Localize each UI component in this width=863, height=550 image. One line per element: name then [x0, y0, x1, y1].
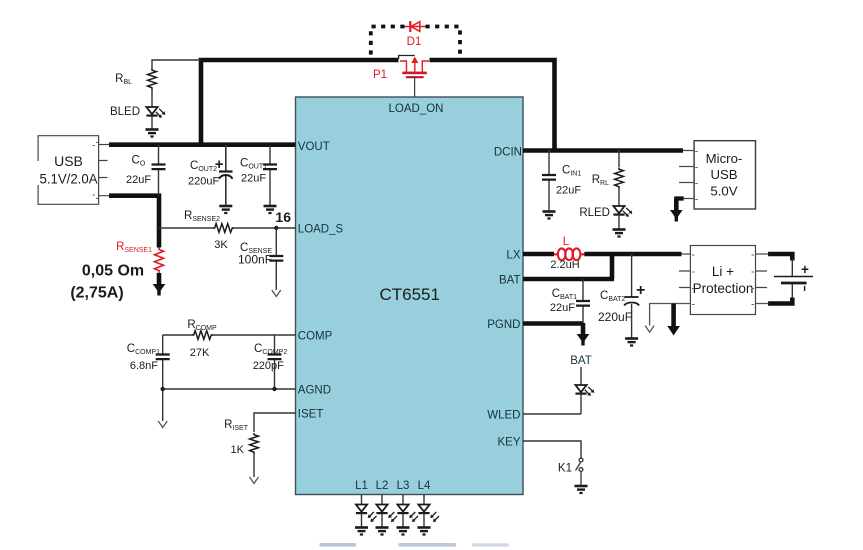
- wire thick BAT rail: [523, 277, 614, 282]
- svg-text:BAT: BAT: [570, 355, 592, 367]
- svg-text:LOAD_ON: LOAD_ON: [389, 103, 444, 115]
- svg-text:22uF: 22uF: [126, 174, 151, 186]
- resistor R_BL: [148, 60, 201, 107]
- svg-text:COMP: COMP: [298, 331, 333, 343]
- svg-text:220pF: 220pF: [253, 360, 284, 372]
- resistor RSENSE1 red: [155, 248, 164, 274]
- node junction DCIN / CIN1: [547, 148, 551, 152]
- svg-text:2.2uH: 2.2uH: [550, 259, 579, 271]
- wire thick PGND rail: [523, 321, 583, 326]
- LED RLED: [613, 206, 632, 229]
- battery BT1: [774, 259, 813, 298]
- Li+ right pin dashes: [756, 271, 768, 288]
- svg-text:27K: 27K: [190, 347, 210, 359]
- wire thick top rail left segment: [201, 60, 399, 145]
- svg-text:CT6551: CT6551: [379, 285, 439, 304]
- svg-text:P1: P1: [373, 69, 387, 81]
- ground bold arrow below RSENSE1: [153, 273, 166, 296]
- Micro-USB box: [694, 141, 755, 209]
- dashed box around D1 right part: [426, 27, 461, 59]
- svg-text:BLED: BLED: [110, 106, 140, 118]
- resistor RCOMP: [192, 331, 213, 340]
- ground below CBAT2: [625, 339, 638, 346]
- capacitor CSENSE: [269, 228, 283, 290]
- svg-text:Li +: Li +: [712, 264, 734, 279]
- switch K1: [576, 458, 584, 486]
- svg-text:Micro-: Micro-: [706, 151, 743, 166]
- ground below L4: [418, 528, 431, 535]
- capacitor Cout2 polarized: [219, 145, 233, 206]
- LED L2: [376, 495, 397, 528]
- wire ISET net: [254, 413, 296, 432]
- capacitor CCOMP1: [156, 335, 170, 389]
- svg-text:220uF: 220uF: [188, 176, 219, 188]
- wire thick LX lead left of coil: [523, 252, 554, 257]
- ground bold arrow below Li+ pin4: [667, 304, 680, 336]
- ground arrow below CSENSE: [272, 290, 281, 297]
- svg-text:(2,75A): (2,75A): [70, 285, 123, 302]
- svg-text:22uF: 22uF: [550, 302, 575, 314]
- ground below L1: [355, 528, 368, 535]
- svg-text:5.0V: 5.0V: [710, 184, 737, 199]
- ground below L2: [376, 528, 389, 535]
- svg-text:220uF: 220uF: [598, 310, 632, 324]
- svg-text:5.1V/2.0A: 5.1V/2.0A: [40, 172, 98, 187]
- battery minus mark: [804, 286, 806, 291]
- ground below L3: [397, 528, 410, 535]
- diode D1: [405, 21, 426, 32]
- watermark bar right: [472, 543, 509, 546]
- node junction AGND / CCOMP2: [272, 387, 276, 391]
- LED L1: [356, 495, 377, 528]
- wire Li+ pin4 to grounds: [650, 304, 691, 326]
- wire LOAD_S net: [159, 227, 296, 229]
- ground below CIN1: [543, 212, 556, 219]
- Micro-USB pin dashes: [679, 151, 694, 199]
- LED L3: [397, 495, 418, 528]
- svg-text:USB: USB: [710, 167, 737, 182]
- capacitor Co: [152, 145, 166, 196]
- wire thick DCIN rail: [523, 148, 683, 153]
- svg-text:ISET: ISET: [298, 409, 324, 421]
- svg-text:KEY: KEY: [497, 437, 520, 449]
- svg-text:0,05 Om: 0,05 Om: [82, 263, 144, 280]
- transistor P1 PMOS: [399, 56, 429, 79]
- svg-text:Protection: Protection: [693, 281, 754, 296]
- wire WLED net: [523, 413, 581, 415]
- capacitor CCOMP2: [268, 335, 282, 389]
- LED BLED: [146, 107, 165, 129]
- svg-text:LOAD_S: LOAD_S: [298, 224, 344, 236]
- wire P1 drain to LOAD_ON pin: [414, 78, 416, 97]
- svg-text:WLED: WLED: [487, 410, 520, 422]
- ground bold arrow below PGND rail: [577, 323, 590, 346]
- wire thick battery bottom loop: [768, 298, 792, 304]
- wire thin stub LX to Li+ pin1: [682, 253, 691, 255]
- ground arrow below CCOMP1: [158, 421, 167, 428]
- ground bold arrow at Micro-USB pin 4: [670, 199, 684, 222]
- wire thick USB lower lead to RSENSE1: [109, 196, 159, 248]
- svg-text:RLED: RLED: [579, 207, 610, 219]
- svg-text:L3: L3: [397, 480, 410, 492]
- ground below Cout2: [219, 206, 232, 213]
- node junction LX / CBAT2: [629, 252, 633, 256]
- svg-text:6.8nF: 6.8nF: [130, 360, 158, 372]
- svg-text:USB: USB: [54, 153, 83, 169]
- Li+ Protection box: [690, 246, 755, 315]
- resistor RISET: [250, 433, 259, 477]
- ground below K1: [575, 486, 588, 493]
- capacitor CBAT1: [576, 279, 590, 324]
- svg-text:DCIN: DCIN: [494, 147, 522, 159]
- svg-text:+: +: [801, 262, 809, 277]
- node junction LOAD_S / CSENSE: [274, 226, 278, 230]
- wire thick LX to BAT drop: [610, 252, 615, 279]
- wire AGND net: [163, 389, 296, 421]
- resistor RRL: [615, 151, 624, 207]
- ground below BLED: [146, 130, 159, 137]
- svg-text:1K: 1K: [231, 444, 245, 456]
- svg-text:K1: K1: [558, 463, 572, 475]
- inductor L: [554, 248, 585, 260]
- capacitor Cout1: [263, 145, 277, 206]
- LED L4: [418, 495, 439, 528]
- USB box pin marks: [93, 143, 99, 199]
- ground open arrow left of Li+: [645, 326, 654, 333]
- USB source box: [38, 136, 99, 205]
- wire COMP net: [163, 334, 296, 336]
- svg-text:L1: L1: [355, 480, 368, 492]
- svg-text:L: L: [563, 236, 570, 248]
- svg-text:+: +: [636, 282, 645, 299]
- svg-text:3K: 3K: [214, 239, 228, 251]
- svg-text:BAT: BAT: [499, 275, 521, 287]
- wire thick top rail right segment to DCIN drop: [430, 60, 555, 151]
- svg-text:22uF: 22uF: [241, 173, 266, 185]
- wire thick VOUT rail: [109, 142, 296, 147]
- resistor RSENSE2: [213, 224, 234, 233]
- svg-text:LX: LX: [506, 250, 520, 262]
- ground below Cout1: [264, 206, 277, 213]
- LED BAT (white LED): [575, 367, 594, 414]
- wire thick battery top loop: [768, 254, 792, 261]
- svg-text:16: 16: [275, 209, 291, 225]
- wire KEY net: [523, 441, 581, 458]
- capacitor CBAT2 polarized: [624, 254, 639, 338]
- svg-text:L4: L4: [418, 480, 431, 492]
- wire thick LX rail right of coil to Li+ box: [584, 252, 681, 257]
- svg-text:22uF: 22uF: [556, 185, 581, 197]
- svg-text:100nF: 100nF: [238, 253, 272, 267]
- USB box pin dashes: [99, 145, 110, 196]
- ground below RLED: [613, 230, 626, 237]
- svg-text:+: +: [215, 156, 224, 173]
- dashed box around D1 left part: [371, 27, 405, 59]
- svg-text:AGND: AGND: [298, 385, 331, 397]
- svg-text:PGND: PGND: [487, 319, 520, 331]
- Li+ left pin dashes: [679, 271, 690, 288]
- svg-text:L2: L2: [376, 480, 389, 492]
- svg-text:D1: D1: [407, 36, 422, 48]
- watermark bar left: [320, 543, 357, 547]
- node junction AGND / CCOMP1: [161, 387, 165, 391]
- svg-text:VOUT: VOUT: [298, 141, 330, 153]
- node junction DCIN / RRL: [617, 148, 621, 152]
- watermark bar middle: [399, 543, 457, 547]
- ground arrow below RISET: [250, 477, 259, 484]
- capacitor CIN1: [542, 151, 556, 212]
- IC U1 CT6551 body: [296, 97, 524, 495]
